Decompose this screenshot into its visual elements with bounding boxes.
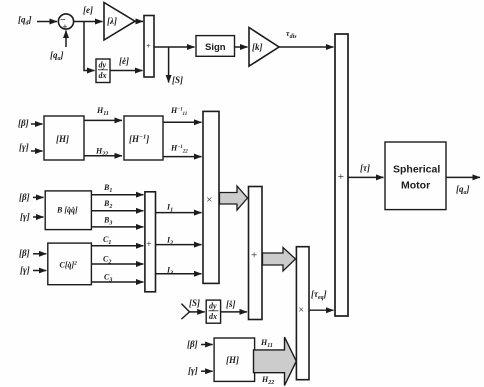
summing junction <box>58 14 73 33</box>
thick arrow summer to eq multiplier <box>263 248 296 272</box>
Spherical Motor block <box>385 142 446 210</box>
gain block [lambda] <box>104 3 135 41</box>
inertia matrix block [H] (bottom) <box>214 338 255 381</box>
svg-text:[H]: [H] <box>226 355 239 365</box>
svg-text:[β]: [β] <box>19 248 30 258</box>
wire gamma to B <box>33 216 44 218</box>
node [gamma] input to C <box>20 265 30 275</box>
node I_1 <box>166 203 173 214</box>
node H^-1_22 <box>170 144 188 155</box>
middle summer bar (vertical +) <box>249 187 263 320</box>
wire beta to H bottom <box>201 344 213 346</box>
svg-text:dx: dx <box>209 312 217 321</box>
node C_1 <box>103 235 111 246</box>
svg-text:[S]: [S] <box>189 298 200 308</box>
wire q_a up to summing junction <box>65 31 67 48</box>
centrifugal block C[q-dot]^2 <box>48 243 92 285</box>
svg-text:+: + <box>62 23 67 33</box>
wire S to derivative (bottom) <box>190 311 205 313</box>
svg-text:[H]: [H] <box>56 134 69 144</box>
wire gamma to H bottom <box>201 370 213 372</box>
wire H_11 to H-inverse <box>84 119 122 121</box>
svg-text:Sign: Sign <box>205 42 226 53</box>
wire branch e down to derivative block <box>84 22 95 71</box>
wire tau_dis to torque summer <box>279 46 334 48</box>
svg-text:[e]: [e] <box>83 5 93 15</box>
svg-text:[k]: [k] <box>252 42 263 52</box>
node [q_a] output <box>456 184 470 196</box>
node B_3 <box>103 216 112 227</box>
Coriolis block B[q-dot q-dot] <box>45 191 91 230</box>
wire I_2 to multiplier <box>156 244 202 246</box>
node tau_dis <box>286 29 297 40</box>
wire B_2 to sum bar <box>91 210 143 212</box>
wire B_3 to sum bar <box>91 226 143 228</box>
node H_11 <box>96 106 109 117</box>
node [s-dot] <box>226 299 236 309</box>
wire beta to C <box>33 253 46 255</box>
B/C summer bar (vertical +) <box>145 192 156 292</box>
node [beta] input to H (top) <box>18 118 29 128</box>
svg-text:[β]: [β] <box>187 339 198 349</box>
svg-text:[β]: [β] <box>18 118 29 128</box>
wire Sign to gain k <box>235 46 248 48</box>
node H^-1_11 <box>170 106 187 117</box>
node [beta] input to H (bottom) <box>187 339 198 349</box>
svg-text:[γ]: [γ] <box>20 212 30 222</box>
torque summer bar (vertical +) <box>335 34 348 316</box>
wire H^-1_22 to multiplier <box>163 156 202 158</box>
wire motor output <box>446 176 480 178</box>
wire tau to spherical motor <box>348 176 384 178</box>
node [q_d] input label <box>18 15 32 27</box>
svg-text:dy: dy <box>209 302 217 311</box>
svg-text:Motor: Motor <box>401 180 430 192</box>
node [gamma] input to H (bottom) <box>188 366 198 376</box>
wire C_1 to sum bar <box>91 245 143 247</box>
derivative block dy/dx (bottom) <box>206 300 220 323</box>
node [tau_eq] <box>311 289 327 301</box>
multiplier bar (vertical x) <box>203 111 219 283</box>
wire branch S down <box>168 47 170 83</box>
equivalent-torque multiplier bar (vertical x) <box>296 247 309 380</box>
Sign block <box>196 36 235 57</box>
node [beta] input to C <box>19 248 30 258</box>
wire I_3 to multiplier <box>156 273 202 275</box>
svg-text:[ė]: [ė] <box>119 56 129 66</box>
wire beta to H <box>31 123 43 125</box>
node H_11 (bottom) <box>260 338 273 349</box>
svg-text:[γ]: [γ] <box>20 265 30 275</box>
wire gamma to C <box>33 270 46 272</box>
svg-text:dy: dy <box>99 61 107 70</box>
wire H_22 to H-inverse <box>84 155 122 157</box>
node [e] <box>83 5 93 15</box>
node H_22 <box>95 147 108 158</box>
svg-text:[β]: [β] <box>19 192 30 202</box>
svg-text:Spherical: Spherical <box>393 164 440 176</box>
svg-text:+: + <box>146 41 151 51</box>
svg-text:×: × <box>298 305 304 316</box>
derivative block dy/dx (top) <box>96 59 110 83</box>
node [e-dot] <box>119 56 129 66</box>
wire beta to B <box>33 196 44 198</box>
wire derivative to S summer <box>110 70 143 72</box>
node B_2 <box>103 199 112 210</box>
node I_3 <box>166 266 173 277</box>
svg-text:[S]: [S] <box>172 75 183 85</box>
svg-text:dx: dx <box>99 71 107 80</box>
thick arrow multiplier to summer <box>220 186 248 210</box>
inertia matrix block [H] (top) <box>44 116 84 160</box>
node [q_a] feedback label <box>50 50 64 62</box>
inverse inertia block [H^-1] <box>124 116 163 160</box>
wire e from junction to gain lambda <box>74 21 103 23</box>
svg-text:+: + <box>338 171 344 183</box>
wire C_3 to sum bar <box>91 281 143 283</box>
wire gamma to H <box>31 150 43 152</box>
gain block [k] <box>249 28 279 67</box>
wire s-dot to middle summer <box>221 311 247 313</box>
svg-text:[γ]: [γ] <box>188 366 198 376</box>
svg-text:+: + <box>146 240 151 250</box>
wire q_d to summing junction <box>37 21 57 23</box>
node C_3 <box>104 273 112 284</box>
svg-text:[τ]: [τ] <box>360 163 370 173</box>
wire I_1 to multiplier <box>156 212 202 214</box>
wire H^-1_11 to multiplier <box>163 121 202 123</box>
node C_2 <box>103 255 111 266</box>
svg-text:B [q̇q̇]: B [q̇q̇] <box>56 206 78 215</box>
wire B_1 to sum bar <box>91 194 143 196</box>
node [S] feed branch <box>181 298 200 319</box>
node [gamma] input to B <box>20 212 30 222</box>
node [gamma] input to H (top) <box>19 142 29 152</box>
node H_22 (bottom) <box>261 375 274 386</box>
node B_1 <box>103 183 112 194</box>
svg-text:[γ]: [γ] <box>19 142 29 152</box>
svg-text:[λ]: [λ] <box>107 16 117 26</box>
node [S] <box>172 75 183 85</box>
thick arrow H to eq multiplier <box>254 337 297 385</box>
node [beta] input to B <box>19 192 30 202</box>
wire gain lambda to S summer <box>135 20 143 22</box>
wire S to Sign block <box>154 46 195 48</box>
summer bar S (vertical +) <box>144 16 154 78</box>
wire tau_eq to torque summer <box>309 309 334 311</box>
svg-text:×: × <box>206 194 212 206</box>
node I_2 <box>166 236 173 247</box>
svg-text:+: + <box>251 249 257 261</box>
wire C_2 to sum bar <box>91 263 143 265</box>
node [tau] <box>360 163 370 173</box>
svg-text:[ṡ]: [ṡ] <box>226 299 236 309</box>
